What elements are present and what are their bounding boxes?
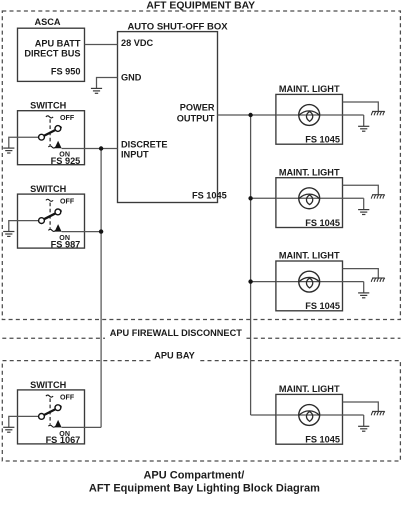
svg-text:FS 1067: FS 1067	[46, 435, 81, 445]
wire: ground lead of S3	[9, 416, 39, 427]
mechanical link dashed line (S3)	[49, 398, 51, 424]
switch S2 arm	[44, 210, 62, 219]
wire: GND lead	[97, 78, 118, 89]
svg-text:OUTPUT: OUTPUT	[177, 114, 215, 124]
link tilde top (S2)	[46, 199, 53, 201]
svg-text:FS 1045: FS 1045	[305, 218, 340, 228]
earth ground (DS3)	[358, 293, 369, 298]
earth ground (S3)	[3, 427, 14, 432]
wire: DS2 chassis drop	[343, 185, 379, 194]
svg-text:DIRECT BUS: DIRECT BUS	[24, 49, 80, 59]
wire: lamp wire through DS2	[276, 197, 364, 199]
svg-text:28 VDC: 28 VDC	[121, 38, 154, 48]
svg-text:OFF: OFF	[60, 198, 75, 206]
maint light DS3 box	[276, 261, 343, 311]
wire: ground lead of S1	[9, 137, 39, 148]
svg-text:OFF: OFF	[60, 114, 75, 122]
switch S1 box	[18, 111, 85, 165]
wire: lamp wire through DS3	[276, 281, 364, 283]
chassis ground (DS4)	[371, 411, 385, 415]
switch S3 ON contact (triangle)	[55, 420, 62, 428]
svg-text:OFF: OFF	[60, 393, 75, 401]
mechanical link dashed line (S1)	[49, 119, 51, 145]
earth ground (DS1)	[358, 126, 369, 131]
svg-text:POWER: POWER	[180, 103, 215, 113]
switch S1 OFF contact	[55, 126, 61, 132]
earth ground (GND)	[91, 88, 102, 93]
APU Bay enclosure (dashed)	[2, 361, 400, 461]
wire: S1 output to DISCRETE INPUT	[62, 148, 118, 150]
wire: power output vertical bus	[250, 115, 252, 415]
wire: feed to DS3	[251, 281, 276, 283]
chassis ground (DS2)	[371, 195, 385, 199]
svg-text:MAINT. LIGHT: MAINT. LIGHT	[279, 84, 340, 94]
svg-text:MAINT. LIGHT: MAINT. LIGHT	[279, 167, 340, 177]
svg-text:FS 1045: FS 1045	[305, 301, 340, 311]
svg-text:SWITCH: SWITCH	[30, 101, 67, 111]
svg-text:AFT Equipment Bay Lighting Blo: AFT Equipment Bay Lighting Block Diagram	[89, 482, 320, 494]
link tilde bottom (S2)	[48, 229, 55, 231]
junction: S1/discrete bus	[99, 146, 103, 150]
switch S2 ON contact (triangle)	[55, 224, 62, 232]
chassis ground (DS3)	[371, 278, 385, 282]
svg-text:DISCRETE: DISCRETE	[121, 140, 167, 150]
ASCA / APU battery direct bus box	[18, 28, 85, 81]
svg-text:AFT EQUIPMENT BAY: AFT EQUIPMENT BAY	[146, 1, 255, 12]
switch S1 ON contact (triangle)	[55, 141, 62, 149]
link tilde top (S3)	[46, 395, 53, 397]
wire: lamp wire through DS1	[276, 114, 364, 116]
wire: S3 output to discrete bus	[62, 426, 102, 428]
lamp symbol DS1	[299, 105, 320, 126]
wire: DS3 earth drop	[363, 282, 365, 293]
junction: power bus / DS3	[248, 279, 252, 283]
APU firewall disconnect boundary (dashed line)	[2, 337, 400, 339]
switch S3 box	[18, 390, 85, 444]
svg-text:APU FIREWALL DISCONNECT: APU FIREWALL DISCONNECT	[110, 328, 242, 338]
lamp symbol DS3	[299, 271, 320, 292]
svg-text:APU BATT: APU BATT	[35, 38, 81, 48]
svg-text:FS 925: FS 925	[51, 156, 81, 166]
svg-text:FS 1045: FS 1045	[305, 435, 340, 445]
auto shut-off box U1	[118, 32, 218, 203]
wire: DS1 chassis drop	[343, 102, 379, 111]
svg-text:FS 1045: FS 1045	[305, 135, 340, 145]
earth ground (S1)	[3, 148, 14, 153]
link tilde bottom (S1)	[48, 146, 55, 148]
wire: DS4 chassis drop	[343, 402, 379, 411]
junction: power bus / DS2	[248, 196, 252, 200]
svg-text:FS 987: FS 987	[51, 239, 81, 249]
switch S3 arm	[44, 406, 62, 415]
earth ground (DS4)	[358, 426, 369, 431]
svg-text:APU BAY: APU BAY	[154, 351, 195, 361]
wire: feed to DS4	[251, 414, 276, 416]
svg-text:MAINT. LIGHT: MAINT. LIGHT	[279, 251, 340, 261]
wire: S2 output to discrete bus	[62, 231, 102, 233]
wire: feed to DS1	[218, 114, 276, 116]
svg-text:AUTO SHUT-OFF BOX: AUTO SHUT-OFF BOX	[127, 21, 228, 32]
svg-text:GND: GND	[121, 72, 142, 82]
lamp symbol DS4	[299, 405, 320, 426]
switch S2 pole contact	[39, 218, 45, 224]
wire: feed to DS2	[251, 197, 276, 199]
switch S3 pole contact	[39, 414, 45, 420]
chassis ground (DS1)	[371, 111, 385, 115]
wire: DS2 earth drop	[363, 198, 365, 209]
earth ground (S2)	[3, 232, 14, 237]
svg-text:INPUT: INPUT	[121, 150, 149, 160]
svg-text:FS 1045: FS 1045	[192, 191, 227, 201]
AFT Equipment Bay enclosure (dashed)	[2, 11, 400, 320]
svg-text:APU Compartment/: APU Compartment/	[143, 469, 244, 481]
wire: lamp wire through DS4	[276, 414, 364, 416]
switch S1 pole contact	[39, 134, 45, 140]
svg-text:SWITCH: SWITCH	[30, 184, 67, 194]
lamp symbol DS2	[299, 188, 320, 209]
switch S2 OFF contact	[55, 209, 61, 215]
maint light DS2 box	[276, 178, 343, 228]
wire: DS4 earth drop	[363, 415, 365, 426]
junction: power bus / DS1	[248, 113, 252, 117]
wire: discrete input vertical bus	[100, 149, 102, 428]
wire: DS1 earth drop	[363, 115, 365, 126]
switch S2 box	[18, 194, 85, 248]
svg-text:FS 950: FS 950	[51, 67, 81, 77]
earth ground (DS2)	[358, 210, 369, 215]
switch S1 arm	[44, 127, 62, 136]
svg-text:ASCA: ASCA	[34, 17, 60, 27]
maint light DS4 box	[276, 394, 343, 444]
switch S3 OFF contact	[55, 405, 61, 411]
wire: ground lead of S2	[9, 221, 39, 232]
link tilde top (S1)	[46, 116, 53, 118]
svg-text:MAINT. LIGHT: MAINT. LIGHT	[279, 384, 340, 394]
link tilde bottom (S3)	[48, 425, 55, 427]
svg-text:SWITCH: SWITCH	[30, 380, 67, 390]
maint light DS1 box	[276, 94, 343, 144]
junction: S2/discrete bus	[99, 229, 103, 233]
wire: ASCA to 28 VDC	[85, 44, 118, 46]
mechanical link dashed line (S2)	[49, 203, 51, 229]
wire: DS3 chassis drop	[343, 269, 379, 278]
